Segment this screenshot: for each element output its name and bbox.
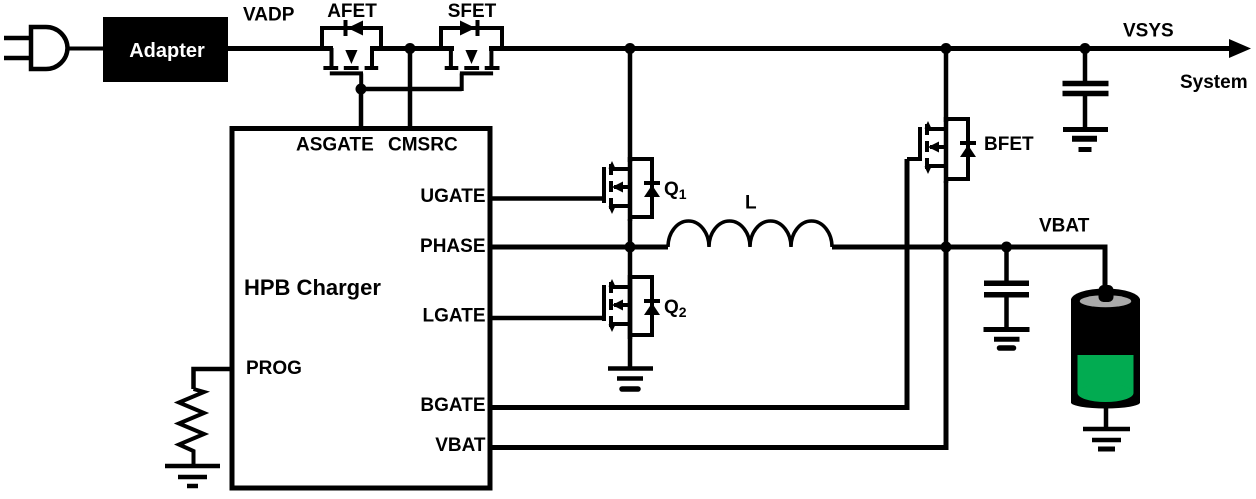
AC plug prong upper: [4, 36, 30, 41]
svg-text:Q1: Q1: [664, 179, 687, 202]
svg-text:AFET: AFET: [327, 1, 377, 22]
node system cap rail: [1080, 43, 1091, 54]
wire battery ground: [1104, 405, 1109, 428]
adapter box: [103, 17, 228, 82]
wire AFET to SFET: [370, 46, 454, 51]
transistor AFET: [322, 20, 381, 91]
svg-text:LGATE: LGATE: [423, 306, 486, 327]
svg-text:VBAT: VBAT: [1039, 216, 1090, 237]
node ASGATE junction: [356, 84, 367, 95]
svg-text:CMSRC: CMSRC: [388, 135, 458, 156]
svg-text:SFET: SFET: [448, 1, 497, 22]
ground system cap: [1063, 130, 1108, 150]
wire ASGATE to SFET gate: [361, 87, 462, 92]
inductor L: [668, 221, 832, 247]
svg-text:VBAT: VBAT: [435, 435, 486, 456]
node rail CMSRC: [405, 43, 416, 54]
svg-text:Adapter: Adapter: [129, 40, 205, 62]
capacitor VBAT: [984, 246, 1029, 329]
svg-text:PROG: PROG: [246, 358, 302, 379]
wire Q1 drain: [628, 48, 633, 162]
node BFET VBAT: [941, 242, 952, 253]
ground battery: [1083, 429, 1130, 449]
VSYS arrowhead: [1229, 39, 1251, 58]
resistor R prog: [179, 389, 204, 466]
node phase: [625, 242, 636, 253]
svg-text:VADP: VADP: [243, 5, 295, 26]
wire inductor to battery rail: [832, 247, 1105, 292]
svg-text:System: System: [1180, 72, 1248, 93]
wire ASGATE vertical: [359, 89, 364, 130]
svg-text:VSYS: VSYS: [1123, 21, 1174, 42]
svg-text:BFET: BFET: [984, 134, 1034, 155]
ground VBAT cap: [984, 330, 1030, 349]
AC plug prong lower: [4, 56, 30, 61]
node VBAT cap: [1001, 242, 1012, 253]
svg-text:Q2: Q2: [664, 297, 687, 320]
wire Q2 source to ground: [628, 247, 633, 368]
transistor SFET: [441, 20, 502, 91]
ground PROG: [165, 466, 220, 486]
svg-text:BGATE: BGATE: [420, 395, 485, 416]
wire Q1 source to phase: [628, 219, 633, 249]
svg-text:PHASE: PHASE: [420, 236, 485, 257]
transistor BFET: [907, 117, 976, 183]
wire UGATE: [490, 196, 606, 201]
svg-text:ASGATE: ASGATE: [296, 135, 374, 156]
wire adapter to AFET: [228, 46, 333, 51]
wire BFET source to VBAT rail: [944, 181, 949, 249]
wire SFET to VSYS arrow: [489, 46, 1233, 51]
node Q1 drain rail: [625, 43, 636, 54]
AC plug body: [31, 27, 68, 69]
transistor Q1: [604, 157, 660, 221]
ground Q2: [608, 369, 653, 390]
svg-text:HPB Charger: HPB Charger: [244, 275, 381, 300]
wire CMSRC vertical: [408, 48, 413, 130]
transistor Q2: [604, 275, 660, 339]
HPB charger box: [232, 129, 490, 489]
wire LGATE: [490, 316, 606, 321]
wire plug to adapter: [67, 47, 104, 51]
svg-text:UGATE: UGATE: [420, 186, 485, 207]
wire BFET drain: [944, 48, 949, 122]
battery BAT1: [1071, 285, 1140, 409]
wire PROG: [194, 369, 232, 389]
wire BGATE: [490, 159, 907, 408]
svg-text:L: L: [745, 193, 757, 214]
capacitor system: [1063, 48, 1109, 129]
wire VBAT pin: [490, 247, 946, 448]
node BFET rail: [941, 43, 952, 54]
wire PHASE: [490, 245, 668, 250]
